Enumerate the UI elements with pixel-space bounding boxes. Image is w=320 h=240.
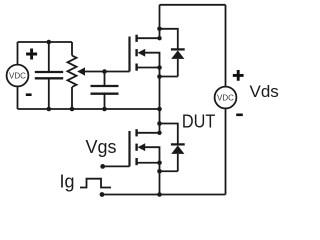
node dot Vgs probe point [100, 164, 105, 169]
V2 minus sign [236, 114, 243, 117]
wire V1 bottom lead [17, 86, 19, 109]
diode D1 [160, 29, 185, 77]
node dot Q2 source corner [157, 160, 162, 165]
pulse waveform symbol [80, 179, 111, 188]
capacitor C1 [35, 42, 63, 109]
wire Q1 drain up [159, 5, 161, 38]
svg-text:Ig: Ig [60, 172, 75, 192]
wire bottom rail [102, 194, 226, 196]
node dot wiper-C2 [102, 69, 107, 74]
V1 minus sign [26, 93, 32, 96]
svg-text:Vgs: Vgs [86, 137, 117, 157]
node dot Ig probe point [100, 192, 105, 197]
node dot Q1 source corner [157, 65, 162, 70]
node dot R1 bottom [70, 107, 75, 112]
resistor R1 potentiometer [68, 42, 77, 109]
wire wiper to gate of Q1 [84, 71, 130, 73]
wire right rail upper [225, 5, 227, 87]
node dot mid rail junction [157, 107, 162, 112]
wire Q1 source down to mid rail and Q2 drain [159, 68, 161, 133]
node dot D2 anode tap [157, 121, 162, 126]
node dot Q2 drain corner [157, 131, 161, 135]
capacitor C2 [91, 72, 119, 110]
svg-text:VDC: VDC [217, 93, 234, 102]
wire Q2 source down to bottom rail [159, 163, 161, 195]
node dot D2 bottom [157, 169, 162, 174]
node dot D1 bottom [157, 74, 162, 79]
transistor Q2 DUT MOSFET [130, 129, 160, 166]
R1 wiper arrow [77, 67, 85, 75]
wire top-left rail [18, 41, 73, 43]
svg-text:VDC: VDC [9, 71, 26, 80]
transistor Q1 high-side MOSFET [130, 35, 160, 72]
wire mid rail [18, 108, 160, 110]
node dot bottom rail junction [157, 192, 162, 197]
wire top rail [160, 4, 226, 6]
node dot Q1 drain corner [157, 36, 161, 40]
VDC source V1 [7, 65, 29, 87]
node dot C2 bottom [102, 107, 107, 112]
svg-text:Vds: Vds [250, 82, 279, 101]
V1 plus sign [26, 49, 37, 60]
node dot rail-C1 top [47, 40, 52, 45]
V2 plus sign [233, 70, 244, 81]
wire V1 top lead [17, 42, 19, 65]
wire gate drive to Q2 gate [103, 165, 130, 167]
wire right rail lower [225, 108, 227, 194]
node dot C1 bottom [47, 107, 52, 112]
diode D2 [160, 124, 185, 172]
node dot D1 anode tap [157, 27, 162, 32]
svg-text:DUT: DUT [182, 110, 215, 131]
VDC meter V2 (Vds) [215, 87, 237, 109]
